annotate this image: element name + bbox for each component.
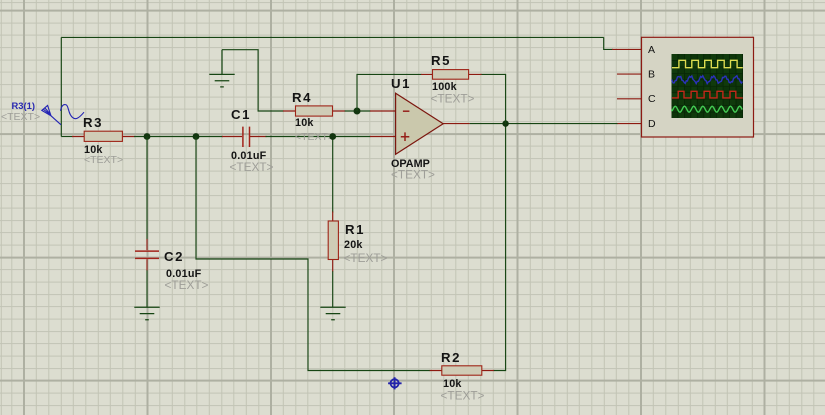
input terminal squiggle wire: [61, 105, 85, 119]
label U1 TEXT placeholder: [391, 168, 435, 182]
wire R1 branch vertical: [332, 137, 334, 213]
label R4 value 10k: [295, 117, 314, 129]
input terminal probe arrow: [42, 105, 61, 124]
pin scope B stub: [617, 73, 642, 75]
svg-text:R5: R5: [431, 53, 451, 68]
resistor R5: [421, 70, 482, 80]
wire op-amp output to scope D: [470, 123, 618, 125]
wire C2 to ground: [146, 270, 148, 307]
wire top horizontal from input node to scope channel A: [61, 36, 603, 38]
label scope channel C: [648, 93, 656, 105]
svg-text:C1: C1: [231, 107, 251, 122]
node junction output / feedback: [502, 120, 508, 126]
pin op-amp plus input lead: [370, 136, 396, 138]
resistor R1: [328, 212, 338, 272]
wire R1 to ground: [332, 271, 334, 307]
resistor R4: [283, 106, 345, 116]
svg-text:<TEXT>: <TEXT>: [441, 389, 485, 403]
wire left vertical input drop: [60, 37, 62, 136]
svg-text:C2: C2: [164, 249, 184, 264]
svg-text:B: B: [648, 69, 655, 81]
svg-text:R1: R1: [345, 222, 365, 237]
wire ground to R4 left: [222, 50, 284, 111]
label U1 value OPAMP: [391, 158, 430, 170]
wire main signal horizontal segment left of R3: [61, 136, 73, 138]
svg-text:<TEXT>: <TEXT>: [84, 154, 123, 166]
wire feedback branch: down, right, down to R2: [196, 137, 430, 371]
label R1 value 20k: [344, 239, 363, 251]
waveform channel A yellow square wave: [672, 60, 743, 67]
wire C2 branch vertical: [146, 137, 148, 240]
svg-text:R3(1): R3(1): [12, 100, 35, 111]
svg-text:R2: R2: [441, 350, 461, 365]
label C2 value 0.01uF: [166, 268, 202, 280]
waveform channel D green sine wave: [672, 106, 742, 112]
wire R2 up to output node: [494, 124, 506, 371]
label R5 value 100k: [432, 81, 458, 93]
label R4 ref: [292, 90, 312, 105]
label scope channel D: [648, 118, 656, 130]
label C1 ref: [231, 107, 251, 122]
node junction main wire / feedback branch: [193, 133, 200, 140]
label scope channel B: [648, 69, 655, 81]
ground symbol under R1: [320, 307, 345, 320]
svg-text:20k: 20k: [344, 239, 363, 251]
label R1 ref: [345, 222, 365, 237]
node junction minus input / R5 branch: [354, 108, 361, 115]
waveform channel B blue noisy wave: [672, 76, 742, 84]
svg-text:<TEXT>: <TEXT>: [431, 92, 475, 106]
label R3 TEXT placeholder: [84, 154, 123, 166]
ground symbol under C2: [134, 307, 159, 320]
label U1 ref: [391, 76, 411, 91]
ground symbol top (R4 left reference): [209, 50, 234, 87]
label R3 ref: [83, 115, 103, 130]
svg-text:<TEXT>: <TEXT>: [165, 278, 209, 292]
label R1 TEXT placeholder: [344, 251, 388, 265]
label R4 TEXT placeholder: [295, 131, 334, 143]
origin marker blue crosshair: [388, 377, 402, 389]
label scope channel A: [648, 44, 655, 56]
pin op-amp output lead: [443, 123, 470, 125]
label R3 value 10k: [84, 144, 103, 156]
label R2 ref: [441, 350, 461, 365]
svg-text:<TEXT>: <TEXT>: [344, 251, 388, 265]
svg-text:A: A: [648, 44, 655, 56]
svg-text:<TEXT>: <TEXT>: [391, 168, 435, 182]
label R5 TEXT placeholder: [431, 92, 475, 106]
oscilloscope screen checker grid: [672, 54, 744, 118]
pin scope C stub: [617, 98, 642, 100]
label R2 TEXT placeholder: [441, 389, 485, 403]
svg-text:U1: U1: [391, 76, 411, 91]
wire scope A corner segment: [604, 37, 613, 49]
svg-text:<TEXT>: <TEXT>: [230, 160, 274, 174]
waveform channel C red square wave: [672, 91, 743, 98]
wire main signal C1 to op-amp plus pin: [266, 136, 371, 138]
oscilloscope screen background: [672, 54, 744, 118]
capacitor C2: [135, 239, 159, 271]
label input net R3(1): [12, 100, 35, 111]
wire R4 right to minus pin: [345, 110, 371, 112]
svg-text:D: D: [648, 118, 656, 130]
svg-text:<TEXT>: <TEXT>: [1, 111, 40, 123]
oscilloscope instrument body: [642, 37, 754, 137]
node junction main wire / C2 branch: [144, 133, 151, 140]
capacitor C1: [222, 127, 267, 147]
wire main signal R3 to C1: [134, 136, 223, 138]
resistor R2: [430, 366, 495, 375]
label C1 TEXT placeholder: [230, 160, 274, 174]
wire R5 right to output node: [482, 74, 506, 124]
label input terminal TEXT placeholder: [1, 111, 40, 123]
svg-text:10k: 10k: [295, 117, 314, 129]
label R5 ref: [431, 53, 451, 68]
svg-text:C: C: [648, 93, 656, 105]
svg-text:R3: R3: [83, 115, 103, 130]
op-amp U1: [396, 93, 444, 154]
resistor R3: [72, 131, 135, 141]
node junction main wire / R1 branch: [329, 133, 336, 140]
label C2 ref: [164, 249, 184, 264]
pin scope D lead: [617, 123, 642, 125]
svg-text:R4: R4: [292, 90, 312, 105]
label C1 value 0.01uF: [231, 150, 267, 162]
label C2 TEXT placeholder: [165, 278, 209, 292]
svg-text:<TEXT>: <TEXT>: [295, 131, 334, 143]
pin scope A lead: [612, 48, 642, 50]
label R2 value 10k: [443, 378, 462, 390]
wire R5 branch up and right: [357, 74, 422, 111]
pin op-amp minus input lead: [370, 110, 396, 112]
